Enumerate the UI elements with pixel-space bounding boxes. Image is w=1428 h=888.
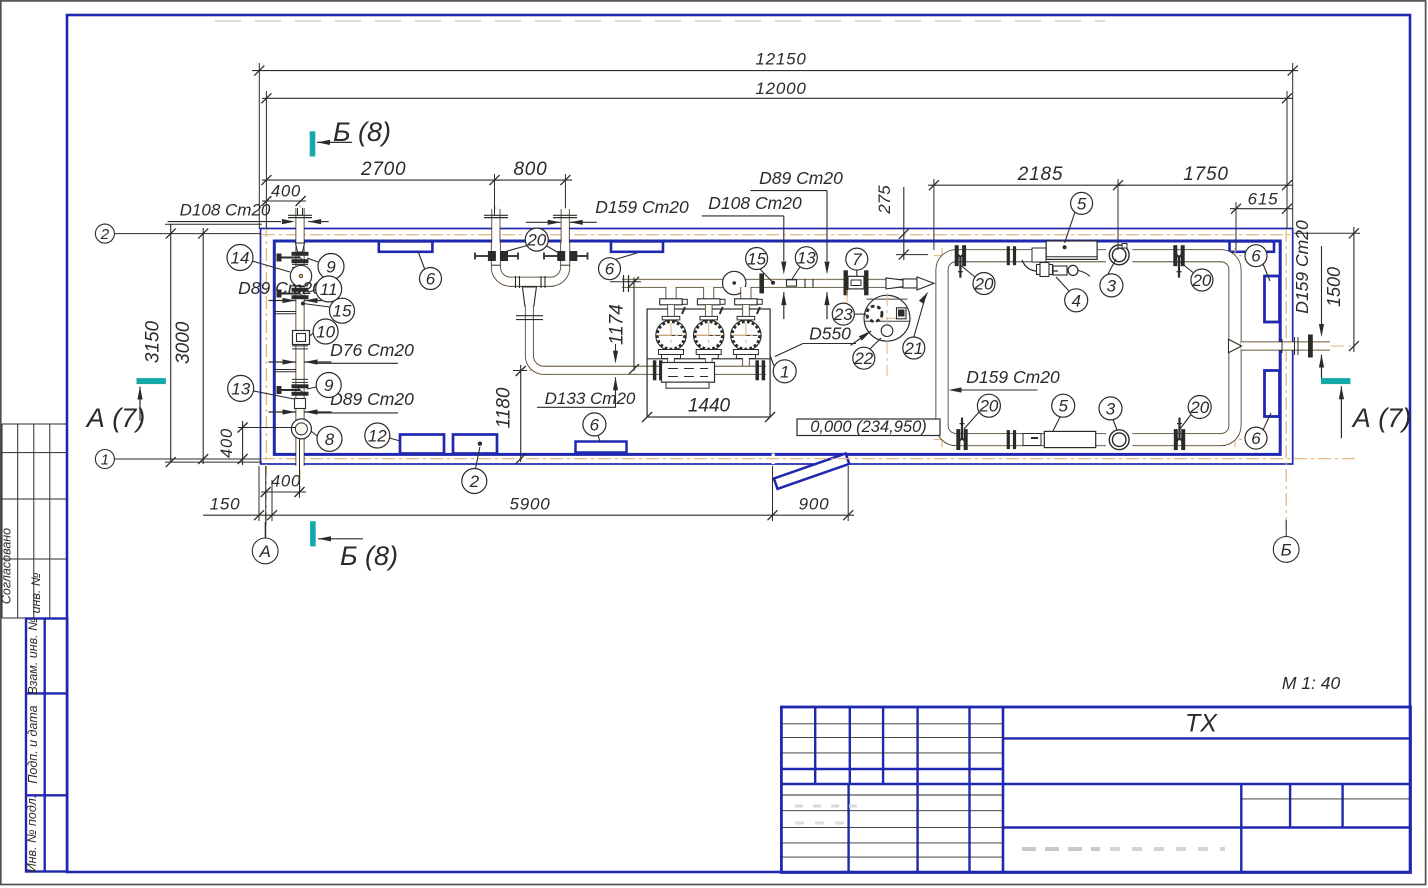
bottom wall box 2 — [453, 435, 497, 454]
pump frame inner line — [647, 358, 770, 360]
stamp column divider 1 — [26, 692, 67, 694]
top wall niche 6b — [611, 241, 663, 251]
ext lines 2700-800 — [494, 174, 496, 216]
valve 9 upper — [292, 252, 308, 255]
dim 400 left-bottom — [242, 421, 244, 465]
valve 20 right stub — [558, 252, 565, 261]
valve 20 loop bottom-right — [1174, 430, 1177, 450]
right wall niche 6f — [1265, 371, 1280, 417]
riser wall stub bottom — [299, 439, 301, 492]
svg-text:20: 20 — [974, 274, 994, 293]
axis bubble A — [264, 522, 266, 538]
axis line col B — [1285, 229, 1287, 541]
outlet cone — [1229, 339, 1242, 352]
U-bend pipe — [496, 243, 565, 282]
svg-text:20: 20 — [526, 231, 546, 250]
svg-text:3: 3 — [1106, 399, 1116, 418]
U bottom flange ticks — [515, 276, 517, 288]
dim 275 — [903, 187, 905, 260]
branch drop pipe — [529, 305, 655, 370]
faded stamp smudges — [1022, 847, 1100, 851]
dim 400 bottom — [261, 491, 306, 493]
svg-text:400: 400 — [218, 428, 236, 458]
axis bubble 2 — [114, 233, 261, 235]
stamp column divider 2 — [26, 794, 67, 796]
svg-text:615: 615 — [1248, 190, 1279, 209]
valve 20 loop top-left — [955, 246, 958, 266]
callout 15 riser — [303, 304, 330, 308]
strainer 14 body — [290, 265, 311, 286]
tank D550 shell — [864, 295, 910, 341]
ext line 615 — [1235, 202, 1237, 250]
callout 3 top — [1108, 259, 1116, 274]
svg-text:900: 900 — [799, 495, 830, 514]
callout 20 stubs — [504, 246, 527, 253]
pumps group — [656, 287, 688, 366]
loop main pipe — [942, 256, 1235, 440]
loop centerline top — [934, 255, 1243, 257]
dim 12000 — [262, 97, 1293, 99]
ext lines 2185-1750 — [933, 179, 935, 250]
header flange 1 — [760, 274, 764, 293]
pipe centerline lower run — [529, 369, 770, 371]
bottom wall niche 6d — [576, 442, 627, 453]
svg-text:22: 22 — [853, 349, 873, 368]
drain 8 body — [291, 419, 311, 439]
svg-text:400: 400 — [271, 473, 301, 491]
meter 7 body — [848, 276, 864, 289]
svg-text:8: 8 — [325, 430, 335, 449]
outlet wall marks — [1294, 337, 1296, 355]
svg-text:6: 6 — [1251, 247, 1261, 266]
callout 15 header — [760, 269, 773, 283]
svg-text:6: 6 — [426, 269, 436, 288]
svg-text:Б (8): Б (8) — [333, 117, 391, 147]
callout 13 header — [792, 267, 800, 279]
thermowell dot 15 — [301, 302, 305, 306]
door leaf — [774, 454, 849, 489]
svg-text:5: 5 — [1077, 194, 1087, 213]
svg-text:13: 13 — [231, 379, 250, 398]
pipe centerline x300 — [299, 205, 301, 490]
svg-text:2185: 2185 — [1017, 164, 1063, 185]
callout 10 — [310, 333, 313, 336]
svg-text:7: 7 — [852, 250, 862, 269]
left approval table grid — [2, 423, 67, 425]
svg-text:1174: 1174 — [606, 304, 627, 345]
suction header pipe — [622, 279, 920, 288]
section mark B bottom — [311, 522, 316, 546]
svg-text:1750: 1750 — [1183, 164, 1228, 185]
bottom wall box 12 — [400, 435, 444, 454]
svg-text:0,000 (234,950): 0,000 (234,950) — [810, 418, 927, 436]
wall bracket lower — [274, 369, 296, 371]
stub 2 flange — [553, 214, 577, 216]
flange pair d — [292, 378, 308, 380]
stamp column inner vertical — [44, 619, 46, 872]
section mark A left — [137, 379, 165, 384]
elbow miter ticks — [525, 352, 534, 354]
device 10 box — [293, 331, 310, 345]
svg-text:1440: 1440 — [688, 396, 731, 417]
svg-text:D159 Cm20: D159 Cm20 — [1292, 220, 1312, 314]
flowmeter 15 body — [723, 271, 746, 294]
dim 150-5900-900 — [203, 514, 854, 516]
callout 9 upper — [307, 258, 318, 262]
dim 1500 — [1353, 227, 1355, 352]
svg-text:150: 150 — [210, 495, 241, 514]
svg-text:9: 9 — [326, 257, 336, 276]
left riser top flange — [288, 214, 312, 216]
outlet reducer cone — [886, 278, 903, 289]
svg-text:инв. №: инв. № — [29, 572, 43, 613]
unit 5 bottom — [1044, 431, 1095, 447]
axis line row 2 — [262, 234, 1291, 236]
svg-text:D89 Cm20: D89 Cm20 — [759, 168, 843, 188]
callout 20 loop-br — [1180, 415, 1191, 430]
unit 5 top — [1046, 241, 1097, 259]
svg-text:1180: 1180 — [494, 387, 515, 428]
stub 1 flange — [484, 214, 508, 216]
callout 5 top — [1065, 212, 1075, 243]
manifold flanges — [653, 361, 656, 380]
dim 12150 — [252, 70, 1298, 72]
leader dot 15 — [771, 281, 775, 285]
svg-text:20: 20 — [978, 397, 998, 416]
svg-text:20: 20 — [1191, 271, 1211, 290]
check 3 top — [1106, 246, 1132, 265]
suction manifold pipe — [651, 366, 766, 375]
title block grid — [781, 707, 1410, 873]
svg-text:800: 800 — [513, 159, 547, 180]
svg-text:9: 9 — [324, 376, 334, 395]
svg-text:12000: 12000 — [755, 79, 806, 98]
svg-text:Инв. № подл.: Инв. № подл. — [25, 795, 39, 873]
svg-text:Подп. и дата: Подп. и дата — [26, 705, 40, 783]
callout 8 — [311, 431, 317, 436]
callout 21 — [914, 297, 926, 338]
axis line col A — [265, 224, 267, 528]
tank chords — [867, 298, 908, 300]
ext lines top overall — [258, 63, 260, 229]
outlet flange — [1309, 335, 1313, 357]
svg-text:А (7): А (7) — [85, 403, 146, 433]
svg-text:20: 20 — [1189, 398, 1209, 417]
callout 5 bottom — [1053, 417, 1060, 431]
dim 1440 — [647, 416, 770, 418]
svg-text:D108 Cm20: D108 Cm20 — [180, 201, 271, 220]
svg-text:А: А — [259, 542, 271, 561]
outlet centerline right — [1235, 345, 1352, 347]
svg-text:10: 10 — [316, 322, 335, 341]
reducer steps — [804, 279, 806, 288]
svg-text:12: 12 — [368, 426, 387, 445]
callout 6 top — [615, 253, 637, 260]
svg-text:2700: 2700 — [360, 159, 406, 180]
svg-text:D550: D550 — [809, 324, 851, 344]
callout 4 — [1056, 277, 1069, 291]
callout 9 lower — [307, 387, 316, 389]
valve 20 loop top-right — [1174, 246, 1177, 266]
loop centerline bottom — [934, 439, 1243, 441]
svg-text:Б (8): Б (8) — [340, 541, 398, 571]
callout 6 bottom-mid — [598, 435, 600, 442]
callout 6a — [418, 252, 424, 269]
right wall niche 6e — [1265, 276, 1280, 322]
pipe centerline header — [622, 282, 934, 284]
dim 1174 — [633, 278, 635, 371]
svg-text:4: 4 — [1071, 291, 1080, 310]
callout 14 — [252, 261, 290, 272]
pipe centerline U branch — [528, 282, 530, 368]
svg-text:D89 Cm20: D89 Cm20 — [330, 389, 414, 409]
label 0.000 mark — [797, 419, 940, 436]
check 3 bottom — [1106, 431, 1132, 450]
svg-text:13: 13 — [797, 249, 816, 268]
branch flange pair — [516, 315, 543, 317]
callout 6 right-top — [1263, 264, 1270, 281]
pipe centerline stub2 — [564, 207, 566, 268]
ext line 1500 top — [1294, 232, 1360, 234]
svg-text:5900: 5900 — [509, 495, 550, 514]
svg-text:15: 15 — [747, 249, 766, 268]
svg-text:3: 3 — [1107, 276, 1117, 295]
left blue stamp column box — [26, 619, 67, 872]
dim 3150 — [170, 224, 172, 462]
svg-text:А (7): А (7) — [1351, 403, 1412, 433]
section mark B top — [310, 132, 315, 156]
callout 20 loop-bl — [964, 412, 979, 429]
svg-text:1: 1 — [780, 362, 789, 381]
svg-text:D89 Cm20: D89 Cm20 — [238, 278, 322, 298]
svg-text:23: 23 — [833, 305, 853, 324]
svg-text:3000: 3000 — [173, 321, 194, 364]
scan artifact dashes under top frame — [215, 20, 1105, 22]
pump frame 1 — [647, 309, 770, 417]
svg-text:D159 Cm20: D159 Cm20 — [966, 367, 1060, 387]
callout 1 — [770, 356, 774, 366]
svg-text:275: 275 — [875, 185, 894, 215]
callout 13 riser — [254, 391, 295, 399]
svg-text:3150: 3150 — [143, 320, 164, 363]
stub pipe 2 — [561, 209, 570, 246]
svg-text:12150: 12150 — [755, 49, 806, 68]
callout 20 loop-tl — [962, 266, 976, 277]
reducer on riser — [296, 243, 305, 252]
dim 1180 — [520, 365, 522, 462]
valve 9 lower — [292, 385, 308, 388]
svg-text:6: 6 — [590, 415, 600, 434]
svg-text:14: 14 — [231, 248, 250, 267]
callout 22 — [870, 338, 881, 349]
flange pair c — [292, 345, 308, 347]
loop bottom flange — [1007, 431, 1009, 449]
callout 20 loop-tr — [1180, 262, 1193, 273]
callout 6 right-bottom — [1263, 413, 1271, 430]
loop centerline right — [1234, 248, 1236, 447]
meter 7 flanges — [844, 271, 847, 295]
dim 800 — [495, 179, 573, 181]
flange pair b — [292, 285, 308, 287]
flange pair a — [292, 263, 308, 265]
svg-text:5: 5 — [1058, 397, 1068, 416]
building outer wall line — [261, 229, 1293, 465]
header left flange pair — [623, 275, 625, 292]
pipe centerline stub1 — [495, 207, 497, 268]
svg-text:Взам. инв. №: Взам. инв. № — [26, 617, 40, 695]
outlet pipe right — [1241, 342, 1330, 351]
callout 3 bottom — [1113, 420, 1117, 431]
wall bracket upper — [274, 311, 296, 313]
callout 7 — [856, 270, 858, 276]
svg-text:М 1: 40: М 1: 40 — [1282, 673, 1341, 693]
loop centerline left — [941, 248, 943, 447]
stub pipe 1 — [491, 209, 500, 246]
valve 20 left stub — [488, 252, 495, 261]
tank nozzle 23 — [867, 306, 882, 321]
branch reducer — [522, 287, 536, 306]
svg-text:15: 15 — [333, 302, 352, 321]
ext lines bottom — [258, 466, 260, 521]
svg-text:Б: Б — [1281, 540, 1292, 559]
svg-text:11: 11 — [320, 280, 338, 299]
callout 12 — [390, 438, 400, 441]
leader dot 21 — [896, 281, 900, 285]
svg-text:2: 2 — [469, 472, 480, 491]
callout 11 — [308, 290, 316, 292]
svg-text:D76 Cm20: D76 Cm20 — [330, 340, 414, 360]
valve 11 — [292, 288, 308, 291]
unit 4 pump — [1022, 260, 1058, 271]
svg-text:TX: TX — [1185, 710, 1218, 738]
outlet stub ticks — [1281, 339, 1283, 353]
svg-text:400: 400 — [271, 183, 301, 201]
door opening jamb left — [772, 454, 775, 465]
top wall niche 6a — [379, 241, 433, 251]
svg-text:Согласовано: Согласовано — [0, 528, 14, 604]
dim 615 — [1230, 208, 1293, 210]
callout 2 bottom — [476, 447, 480, 469]
section mark A right — [1322, 379, 1350, 384]
tank fitting 21 — [897, 308, 907, 319]
fitting 13 box — [295, 399, 306, 409]
manifold tank — [662, 363, 715, 383]
dim 400 top — [262, 200, 306, 202]
axis bubble 1 — [114, 458, 261, 460]
left riser pipe — [296, 208, 305, 466]
valve 20 loop bottom-left — [957, 430, 960, 450]
svg-text:6: 6 — [1251, 429, 1261, 448]
axis line row 1 — [262, 458, 1357, 460]
dim 1750 — [1118, 184, 1293, 186]
top wall niche 6c — [1230, 241, 1275, 251]
dim 2185 — [928, 184, 1124, 186]
loop top flange — [1007, 247, 1009, 265]
svg-text:1500: 1500 — [1324, 267, 1344, 307]
svg-text:21: 21 — [903, 339, 923, 358]
building inner wall line — [274, 241, 1280, 454]
dim 2700 — [262, 179, 500, 181]
svg-text:D133 Cm20: D133 Cm20 — [545, 389, 636, 408]
svg-text:1: 1 — [101, 451, 109, 468]
dim 3000 — [202, 228, 204, 464]
svg-text:D159 Cm20: D159 Cm20 — [595, 197, 689, 217]
axis bubble B — [1285, 520, 1287, 537]
tank nozzle small — [881, 325, 893, 337]
tank crosshair — [886, 293, 888, 376]
svg-text:6: 6 — [605, 260, 615, 279]
svg-text:2: 2 — [100, 226, 110, 243]
svg-text:D108 Cm20: D108 Cm20 — [708, 193, 802, 213]
callout 23 — [854, 313, 866, 315]
orifice 13 box — [787, 280, 797, 286]
